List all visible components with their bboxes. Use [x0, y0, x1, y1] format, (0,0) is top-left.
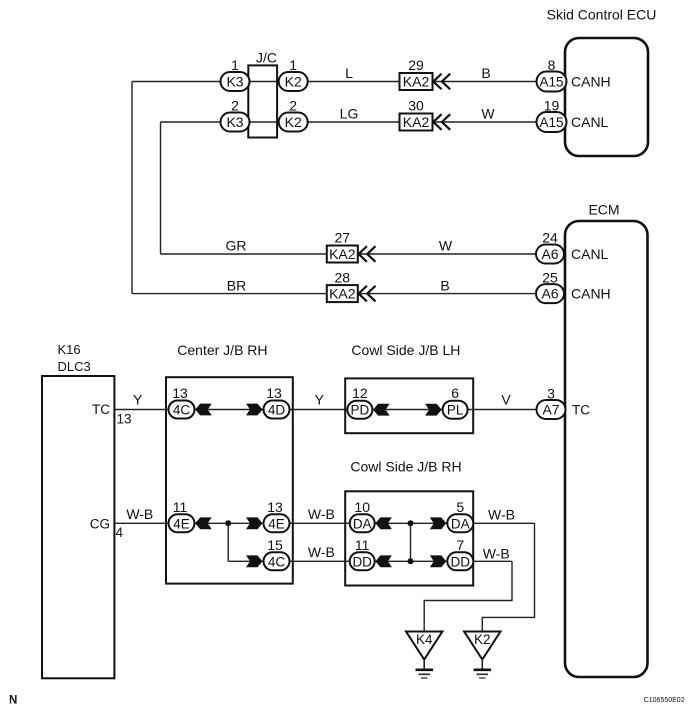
- connector 4E pin 11: [169, 499, 195, 533]
- arrow right at DD7: [430, 555, 447, 567]
- svg-text:CANH: CANH: [571, 286, 611, 302]
- svg-text:DA: DA: [353, 516, 372, 531]
- chevrons at KA2 pin 30: [433, 114, 450, 130]
- svg-text:7: 7: [456, 537, 464, 553]
- connector A15 pin 19: [537, 98, 567, 133]
- svg-text:Skid Control ECU: Skid Control ECU: [547, 7, 657, 23]
- connector PD pin 12: [347, 385, 372, 419]
- svg-text:K3: K3: [226, 74, 243, 90]
- wire DD7 to ground K4: [424, 561, 512, 631]
- svg-text:27: 27: [335, 230, 351, 246]
- svg-text:11: 11: [355, 537, 370, 553]
- svg-text:25: 25: [542, 269, 558, 285]
- svg-text:30: 30: [408, 98, 424, 114]
- ground K4: [406, 632, 442, 679]
- svg-text:W-B: W-B: [308, 506, 335, 522]
- svg-text:A6: A6: [541, 286, 558, 302]
- connector 4D pin 13: [264, 385, 290, 419]
- svg-text:10: 10: [354, 499, 370, 515]
- wire CANL row: K3 pin2 to A15 pin19: [161, 121, 537, 123]
- connector K3 pin 2: [221, 98, 250, 132]
- wire GR row to A6 pin24: [161, 253, 537, 255]
- svg-text:2: 2: [231, 98, 239, 114]
- arrow right at 4D13: [246, 404, 263, 416]
- node junction dot lower (Cowl Side J/B RH): [408, 558, 414, 564]
- svg-text:ECM: ECM: [588, 202, 619, 218]
- svg-text:Cowl Side J/B RH: Cowl Side J/B RH: [350, 458, 461, 474]
- svg-text:GR: GR: [226, 238, 247, 254]
- svg-text:W: W: [439, 238, 453, 254]
- node junction dot (Center J/B RH): [225, 520, 231, 526]
- svg-text:4E: 4E: [268, 516, 285, 531]
- connector DA pin 5: [447, 499, 473, 533]
- node junction dot upper (Cowl Side J/B RH): [408, 520, 414, 526]
- connector KA2 pin 28: [327, 269, 358, 302]
- arrow right at 4E13: [246, 517, 263, 529]
- connector 4C pin 13: [169, 385, 195, 419]
- connector KA2 pin 30: [400, 98, 433, 131]
- box K16 DLC3: [42, 342, 114, 678]
- arrow left at 4C13: [195, 404, 212, 416]
- wire DA5 to ground K2: [482, 523, 534, 631]
- connector DD pin 11: [350, 537, 375, 571]
- svg-text:13: 13: [267, 499, 283, 515]
- svg-text:4: 4: [116, 525, 124, 540]
- svg-text:J/C: J/C: [256, 49, 277, 65]
- arrow left at DD11: [375, 555, 392, 567]
- connector A6 pin 24: [536, 230, 564, 264]
- connector A7 pin 3: [537, 385, 566, 419]
- wire left vertical CANL branch: [160, 122, 162, 254]
- arrow left at DA10: [375, 517, 392, 529]
- wire CANH row: K3 pin1 to A15 pin8: [132, 81, 537, 83]
- svg-text:CANL: CANL: [571, 114, 609, 130]
- wire CG row DLC3 to DA5: [114, 522, 534, 524]
- junction connector J/C: [248, 49, 277, 137]
- svg-text:KA2: KA2: [329, 286, 356, 302]
- chevrons at KA2 pin 27: [359, 246, 376, 262]
- svg-text:KA2: KA2: [329, 246, 356, 262]
- svg-text:CANH: CANH: [571, 74, 611, 90]
- svg-text:4E: 4E: [173, 516, 190, 531]
- svg-text:1: 1: [231, 57, 239, 73]
- box Skid Control ECU: [547, 7, 657, 157]
- svg-text:K2: K2: [285, 114, 302, 130]
- wire TC row DLC3 to A7: [114, 409, 536, 411]
- wire junction drop in Center J/B RH: [227, 523, 229, 561]
- connector PL pin 6: [443, 385, 468, 419]
- connector DD pin 7: [447, 537, 473, 571]
- svg-text:Y: Y: [315, 392, 325, 408]
- arrow right at PL6: [425, 404, 442, 416]
- svg-text:KA2: KA2: [403, 114, 430, 130]
- arrow right at DA5: [430, 517, 447, 529]
- svg-text:3: 3: [547, 385, 555, 401]
- wire left vertical CANH branch: [131, 82, 133, 294]
- svg-text:TC: TC: [572, 403, 590, 418]
- connector 4C pin 15: [264, 537, 290, 571]
- svg-text:4C: 4C: [268, 554, 286, 569]
- connector A15 pin 8: [537, 57, 567, 92]
- connector K3 pin 1: [221, 57, 250, 91]
- svg-text:1: 1: [289, 57, 297, 73]
- wire BR row to A6 pin25: [132, 293, 536, 295]
- connector DA pin 10: [350, 499, 375, 533]
- svg-text:K3: K3: [226, 114, 243, 130]
- svg-text:B: B: [440, 277, 449, 293]
- svg-text:DLC3: DLC3: [58, 359, 91, 374]
- svg-text:6: 6: [451, 385, 459, 401]
- svg-text:W-B: W-B: [488, 507, 515, 523]
- connector KA2 pin 29: [400, 57, 433, 90]
- box Cowl Side J/B RH: [345, 458, 473, 585]
- svg-text:TC: TC: [92, 402, 110, 417]
- box Cowl Side J/B LH: [345, 342, 473, 433]
- svg-text:LG: LG: [340, 106, 359, 122]
- svg-text:11: 11: [173, 499, 188, 515]
- svg-text:4C: 4C: [173, 403, 191, 418]
- svg-text:DD: DD: [352, 554, 372, 569]
- svg-text:K2: K2: [285, 74, 302, 90]
- svg-text:CG: CG: [90, 516, 110, 531]
- svg-text:12: 12: [352, 385, 368, 401]
- svg-text:15: 15: [267, 537, 283, 553]
- svg-text:L: L: [345, 65, 353, 81]
- svg-text:29: 29: [408, 57, 424, 73]
- svg-text:8: 8: [548, 57, 556, 73]
- svg-text:DD: DD: [451, 554, 471, 569]
- svg-text:V: V: [501, 392, 511, 408]
- svg-text:B: B: [481, 65, 490, 81]
- svg-text:Y: Y: [133, 392, 143, 408]
- connector K2 pin 1: [279, 57, 308, 91]
- svg-text:4D: 4D: [268, 403, 286, 418]
- svg-text:A15: A15: [539, 115, 563, 130]
- svg-text:13: 13: [172, 385, 188, 401]
- svg-text:19: 19: [544, 98, 560, 114]
- wire lower W-B row: [228, 560, 512, 562]
- svg-text:N: N: [9, 694, 17, 706]
- box Center J/B RH: [166, 342, 293, 584]
- svg-text:KA2: KA2: [403, 74, 430, 90]
- svg-text:Center J/B RH: Center J/B RH: [177, 342, 267, 358]
- svg-text:CANL: CANL: [571, 246, 609, 262]
- svg-text:13: 13: [117, 412, 132, 427]
- svg-text:PD: PD: [351, 403, 370, 418]
- ground K2: [464, 632, 500, 679]
- svg-text:K2: K2: [474, 632, 491, 647]
- svg-text:13: 13: [266, 385, 282, 401]
- arrow left at 4E11: [195, 517, 212, 529]
- chevrons at KA2 pin 28: [359, 286, 376, 302]
- svg-text:K16: K16: [58, 342, 81, 357]
- arrow left at PD12: [373, 404, 390, 416]
- svg-text:BR: BR: [227, 277, 246, 293]
- svg-text:28: 28: [335, 269, 351, 285]
- svg-text:W: W: [481, 106, 495, 122]
- connector K2 pin 2: [279, 98, 308, 132]
- svg-text:W-B: W-B: [126, 506, 153, 522]
- svg-text:K4: K4: [416, 632, 433, 647]
- svg-text:A6: A6: [541, 246, 558, 262]
- svg-text:24: 24: [542, 230, 558, 246]
- svg-text:5: 5: [456, 499, 464, 515]
- wire junction drop in Cowl Side J/B RH: [410, 523, 412, 561]
- connector A6 pin 25: [536, 269, 564, 303]
- svg-text:A7: A7: [542, 402, 559, 418]
- box ECM: [565, 202, 648, 678]
- connector 4E pin 13: [264, 499, 290, 533]
- svg-text:DA: DA: [451, 516, 470, 531]
- svg-text:W-B: W-B: [308, 544, 335, 560]
- connector KA2 pin 27: [327, 230, 358, 263]
- arrow right at 4C15: [246, 555, 263, 567]
- svg-text:PL: PL: [447, 403, 464, 418]
- svg-text:C106550E02: C106550E02: [644, 697, 685, 704]
- chevrons at KA2 pin 29: [433, 74, 450, 90]
- svg-text:2: 2: [289, 98, 297, 114]
- svg-text:W-B: W-B: [483, 545, 510, 561]
- svg-text:A15: A15: [539, 75, 563, 90]
- svg-text:Cowl Side J/B LH: Cowl Side J/B LH: [351, 342, 460, 358]
